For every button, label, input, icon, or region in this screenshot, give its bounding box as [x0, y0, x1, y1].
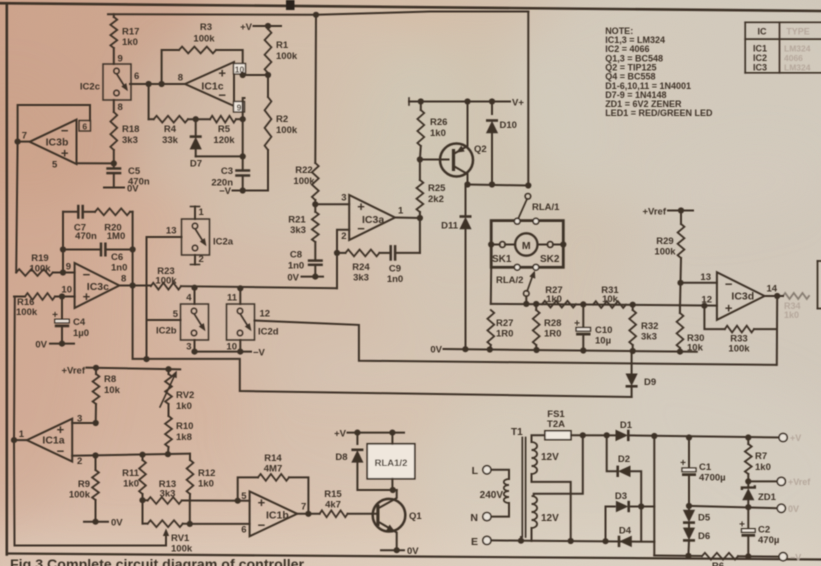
wire feedback drop — [419, 218, 421, 253]
svg-text:11: 11 — [227, 293, 238, 304]
resistor R28 — [533, 304, 562, 351]
svg-text:ZD1: ZD1 — [758, 492, 777, 503]
svg-text:IC2c: IC2c — [80, 82, 100, 93]
svg-text:−: − — [83, 267, 91, 282]
svg-text:1R0: 1R0 — [544, 329, 561, 340]
svg-text:10k: 10k — [602, 294, 619, 305]
svg-text:IC: IC — [758, 27, 768, 37]
preset RV2 — [160, 369, 194, 412]
svg-text:12V: 12V — [541, 513, 559, 524]
resistor R3 — [179, 22, 216, 53]
resistor R8 — [93, 368, 121, 423]
wire D7 anode to C3 column — [196, 153, 246, 159]
svg-text:D7: D7 — [190, 159, 202, 170]
wire IC2c pin 8 — [114, 100, 123, 113]
svg-text:D6: D6 — [698, 531, 710, 542]
svg-text:LM324: LM324 — [784, 62, 811, 72]
svg-text:IC1a: IC1a — [42, 435, 64, 447]
node pin9 feedback — [60, 262, 71, 276]
svg-text:100k: 100k — [728, 344, 750, 355]
resistor R21 — [288, 204, 318, 242]
svg-text:1k0: 1k0 — [123, 479, 139, 490]
svg-text:R28: R28 — [544, 318, 561, 329]
wire R3 right leg — [216, 50, 243, 75]
node IC3c out — [130, 282, 136, 288]
contact circle top-left — [514, 218, 520, 224]
pin 2 stub IC2a — [191, 254, 204, 265]
svg-text:3k3: 3k3 — [122, 135, 138, 146]
svg-text:C8: C8 — [290, 250, 302, 261]
potentiometer RV1 — [143, 520, 193, 554]
node R30-0V — [677, 349, 683, 355]
svg-text:R3: R3 — [200, 22, 212, 33]
resistor R24 — [337, 250, 379, 284]
svg-text:+Vref: +Vref — [642, 207, 666, 218]
wire collector row — [464, 181, 528, 187]
svg-text:100k: 100k — [69, 490, 91, 501]
note text block — [605, 26, 713, 118]
svg-text:R26: R26 — [430, 117, 447, 128]
socket SK2 — [538, 241, 567, 265]
svg-text:100k: 100k — [29, 264, 51, 275]
svg-text:0V: 0V — [287, 273, 299, 284]
svg-text:3k3: 3k3 — [353, 273, 369, 284]
terminal +Vref out — [777, 477, 811, 487]
svg-text:12V: 12V — [541, 452, 559, 463]
wire control drop from IC3c out — [133, 286, 632, 398]
resistor R11 — [122, 455, 146, 501]
svg-text:3k3: 3k3 — [290, 225, 306, 236]
pin 12 label — [701, 295, 712, 306]
svg-text:R9: R9 — [78, 479, 90, 490]
ground 0V (C5) — [127, 184, 139, 195]
wire IC2d pin 10 stub — [226, 340, 240, 353]
svg-text:C9: C9 — [389, 264, 401, 275]
svg-text:100k: 100k — [276, 51, 298, 62]
svg-text:R11: R11 — [122, 468, 140, 479]
node pin5 junction — [111, 160, 117, 166]
svg-text:9: 9 — [237, 103, 242, 113]
svg-text:4M7: 4M7 — [264, 464, 282, 475]
svg-text:IC2a: IC2a — [213, 237, 234, 248]
fuse FS1 — [545, 409, 571, 440]
svg-text:−V: −V — [790, 553, 801, 563]
wire D2 cathode leg — [607, 435, 618, 471]
resistor R23 — [151, 266, 181, 290]
svg-text:Q1: Q1 — [409, 511, 422, 522]
capacitor C8 — [288, 242, 323, 272]
node D10 top — [489, 98, 495, 104]
resistor R29 — [654, 211, 684, 283]
wire 0V mid rail — [689, 506, 781, 508]
svg-text:D8: D8 — [335, 452, 347, 463]
svg-text:T2A: T2A — [547, 419, 565, 430]
svg-text:33k: 33k — [162, 135, 179, 146]
resistor R6 — [702, 553, 738, 566]
transformer core — [511, 427, 526, 537]
resistor R4 — [149, 116, 188, 146]
svg-text:1n0: 1n0 — [111, 263, 127, 274]
node C2 bottom — [745, 553, 751, 559]
svg-text:−V: −V — [253, 347, 266, 358]
wire node to R4 row — [148, 84, 150, 119]
pin 6 notch IC3b — [79, 121, 91, 132]
node pin3 IC3a — [312, 200, 318, 207]
svg-text:R1: R1 — [276, 40, 289, 51]
svg-text:120k: 120k — [213, 135, 235, 146]
wire R29-R30 column — [679, 283, 682, 313]
wire +Vref out row — [748, 480, 781, 482]
svg-text:C3: C3 — [221, 166, 233, 177]
svg-text:R4: R4 — [164, 124, 177, 135]
ground 0V rail — [430, 345, 696, 356]
svg-text:C6: C6 — [111, 252, 123, 263]
node C6 right — [130, 246, 136, 252]
wire upper sec bottom — [532, 474, 571, 541]
wire top rail — [108, 12, 528, 15]
svg-text:E: E — [471, 536, 478, 548]
diode D2 — [618, 454, 631, 477]
svg-text:C10: C10 — [595, 325, 612, 336]
node IC3b output — [15, 139, 21, 145]
diode D8 — [335, 433, 396, 490]
svg-text:+: + — [218, 66, 226, 81]
svg-text:R32: R32 — [641, 321, 658, 332]
wire pin 2 leg — [337, 230, 349, 289]
capacitor C6 — [63, 243, 133, 274]
svg-text:1n0: 1n0 — [387, 274, 403, 285]
wire sense row — [491, 304, 680, 305]
terminal L — [472, 465, 509, 479]
svg-text:R5: R5 — [218, 124, 231, 135]
diode D5 — [683, 506, 711, 524]
svg-text:IC1: IC1 — [753, 44, 767, 54]
node C10-0V — [580, 347, 586, 353]
node pin13 — [677, 280, 683, 286]
wire base — [420, 159, 449, 161]
svg-text:1k0: 1k0 — [546, 294, 562, 305]
resistor R27 (1R0) — [487, 310, 513, 351]
wire R5 right column — [240, 116, 246, 170]
resistor R15 — [320, 489, 376, 517]
ground 0V (R9) — [84, 518, 123, 529]
contact circle bottom-right — [533, 264, 539, 270]
svg-text:4700µ: 4700µ — [699, 473, 726, 484]
svg-text:C4: C4 — [73, 317, 86, 328]
svg-text:4k7: 4k7 — [325, 500, 341, 511]
wire rail IC3b to R19 — [16, 142, 17, 273]
wire R25 to base node — [419, 160, 421, 181]
svg-text:10µ: 10µ — [595, 336, 611, 347]
wire pin 13 row — [681, 272, 717, 283]
wire D3 cathode leg — [629, 506, 655, 508]
svg-text:2: 2 — [77, 456, 82, 467]
wire IC3b pin 5 to node — [52, 160, 114, 171]
svg-text:LED1 = RED/GREEN LED: LED1 = RED/GREEN LED — [605, 108, 713, 118]
svg-text:3: 3 — [77, 414, 82, 425]
wire feedback left leg — [62, 212, 64, 273]
svg-text:M: M — [522, 240, 531, 252]
capacitor C7 — [63, 205, 97, 242]
node fuse out — [580, 432, 586, 438]
node R24 tie — [334, 250, 340, 256]
wire D2 anode leg — [631, 471, 641, 541]
node R32-0V — [630, 348, 636, 354]
svg-text:IC3a: IC3a — [362, 214, 384, 226]
svg-text:R22: R22 — [295, 165, 312, 176]
op-amp IC3c — [75, 263, 120, 308]
terminal E — [471, 536, 532, 548]
node output-R3 tap — [159, 81, 165, 87]
node R4-R5-D7 — [193, 116, 199, 122]
node C10 top — [580, 301, 586, 307]
svg-text:IC3b: IC3b — [46, 136, 69, 148]
capacitor C9 — [379, 245, 420, 285]
svg-text:R27: R27 — [496, 318, 513, 329]
wire feedback drop IC3d — [776, 296, 778, 365]
svg-text:T1: T1 — [511, 427, 523, 438]
svg-text:R24: R24 — [352, 262, 370, 273]
wire IC1c output to IC2c pin 6 — [130, 71, 185, 84]
wire pin 9 leg — [243, 98, 245, 119]
svg-text:1n0: 1n0 — [288, 261, 304, 272]
resistor R1 — [265, 26, 298, 75]
node R7 bottom — [745, 478, 751, 484]
wire motor box left leg — [490, 267, 492, 304]
resistor R30 — [677, 305, 705, 353]
diode D11 — [441, 185, 471, 351]
analog switch IC2a — [182, 219, 234, 255]
wire R18 to C5 — [113, 150, 115, 168]
svg-text:6: 6 — [82, 121, 87, 131]
wire pin 5 IC2b — [147, 309, 181, 320]
svg-text:3: 3 — [341, 193, 346, 204]
svg-text:R7: R7 — [755, 451, 767, 462]
svg-text:D3: D3 — [615, 491, 627, 502]
capacitor C4 (electrolytic) — [52, 297, 89, 344]
node RV2 top — [165, 366, 171, 372]
box at right edge — [818, 261, 821, 309]
wire pin 2 row — [72, 454, 190, 467]
node RLA/2 tie — [523, 301, 529, 307]
wire upper sec top — [532, 435, 545, 442]
transformer T1 secondary upper — [532, 442, 560, 474]
svg-text:0V: 0V — [127, 184, 139, 195]
wire +V drop column — [651, 433, 657, 556]
svg-text:D1: D1 — [620, 420, 633, 431]
svg-text:240V: 240V — [480, 490, 504, 501]
resistor R10 — [165, 404, 193, 454]
svg-text:3k3: 3k3 — [160, 489, 176, 500]
node R1-pin10 — [265, 72, 271, 78]
node IC1a out rail — [11, 437, 17, 443]
svg-text:−: − — [258, 518, 266, 533]
wire pin 10 row — [246, 74, 269, 76]
svg-text:100k: 100k — [193, 34, 215, 45]
svg-text:1k0: 1k0 — [176, 401, 192, 412]
node R8 top — [93, 365, 99, 371]
svg-text:0V: 0V — [111, 518, 123, 529]
pin 1 stub IC2a — [191, 207, 205, 220]
relay contact RLA/1 — [519, 194, 560, 218]
svg-text:1k8: 1k8 — [176, 432, 192, 443]
svg-text:C2: C2 — [758, 525, 770, 536]
op-amp IC1c — [185, 62, 234, 106]
terminal N — [470, 512, 491, 524]
svg-text:0V: 0V — [35, 340, 47, 351]
node R9 top — [92, 452, 98, 458]
pin 10 notch IC1c — [234, 64, 246, 75]
wire control bus vertical — [146, 237, 148, 359]
op-amp IC1b — [250, 491, 298, 536]
ground 0V (C8) — [287, 265, 323, 284]
svg-text:9: 9 — [118, 54, 123, 65]
svg-text:IC2d: IC2d — [258, 327, 279, 338]
capacitor C2 (electrolytic) — [739, 507, 779, 556]
svg-text:IC1c: IC1c — [201, 81, 223, 93]
svg-text:13: 13 — [166, 226, 177, 237]
resistor R27 (1k0) — [542, 285, 576, 308]
node C6 left — [60, 246, 66, 252]
svg-text:5: 5 — [52, 160, 58, 171]
wire IC2d pin 11 stub — [227, 288, 240, 304]
power -V tie (switch bank) — [191, 347, 265, 358]
svg-text:9: 9 — [66, 262, 71, 273]
svg-text:100k: 100k — [16, 307, 38, 318]
svg-text:7: 7 — [301, 502, 306, 513]
svg-text:1µ0: 1µ0 — [73, 328, 89, 339]
terminal 0V out — [777, 504, 799, 514]
svg-text:14: 14 — [767, 284, 778, 295]
svg-text:RLA/1: RLA/1 — [532, 202, 560, 213]
svg-text:1k0: 1k0 — [122, 37, 138, 48]
svg-text:LM324: LM324 — [784, 44, 811, 54]
op-amp IC1a — [27, 419, 72, 462]
wire C3 to -V — [240, 176, 246, 194]
resistor R18 — [110, 112, 139, 150]
svg-text:1k0: 1k0 — [784, 310, 799, 320]
svg-text:8: 8 — [121, 274, 126, 285]
svg-text:−: − — [725, 277, 733, 292]
svg-text:D10: D10 — [500, 120, 517, 131]
svg-text:D4: D4 — [619, 526, 632, 537]
resistor R16 label — [16, 297, 38, 318]
power V+ rail — [409, 98, 524, 109]
svg-text:R8: R8 — [104, 374, 116, 385]
svg-text:D9: D9 — [644, 377, 656, 388]
wire IC2d pin 12 control — [255, 309, 776, 365]
svg-text:D5: D5 — [698, 513, 711, 524]
wire pin 3 row — [72, 414, 99, 427]
svg-text:R14: R14 — [264, 453, 282, 464]
svg-text:0V: 0V — [407, 546, 419, 557]
node C4 top — [59, 293, 65, 299]
svg-text:V+: V+ — [512, 98, 524, 109]
svg-text:+: + — [258, 495, 266, 510]
transformer T1 primary — [480, 479, 509, 503]
svg-text:6: 6 — [134, 71, 139, 82]
resistor R12 — [187, 454, 216, 501]
wire R22 column — [314, 15, 317, 163]
node R32 top — [630, 302, 636, 308]
svg-text:470µ: 470µ — [758, 535, 779, 546]
svg-text:1R0: 1R0 — [496, 329, 513, 340]
wire IC1b output pin 7 — [297, 502, 319, 514]
op-amp IC3a — [349, 195, 395, 240]
node R26 top — [418, 98, 424, 104]
svg-text:+Vref: +Vref — [61, 366, 85, 377]
svg-text:−V: −V — [219, 186, 232, 197]
wire R3 left leg — [162, 50, 179, 84]
node R23-IC2d — [237, 285, 243, 291]
svg-text:+: + — [357, 199, 365, 214]
svg-text:R18: R18 — [122, 124, 139, 135]
svg-text:3k3: 3k3 — [641, 332, 657, 343]
svg-text:3: 3 — [186, 342, 191, 353]
terminal -V out — [779, 553, 801, 563]
svg-text:R12: R12 — [198, 468, 215, 479]
svg-text:100k: 100k — [654, 247, 676, 258]
motor M — [515, 233, 537, 255]
node R13 left — [139, 497, 145, 503]
wire IC3b feedback loop — [18, 105, 90, 142]
node R14 tap — [235, 498, 241, 504]
svg-text:2k2: 2k2 — [428, 194, 444, 205]
svg-text:+V: +V — [334, 429, 347, 440]
zener ZD1 — [742, 481, 777, 507]
node D2-D3 — [638, 503, 644, 509]
svg-text:RLA/2: RLA/2 — [496, 275, 523, 286]
svg-text:5: 5 — [173, 309, 179, 320]
svg-text:5: 5 — [241, 491, 247, 502]
svg-text:1k0: 1k0 — [755, 462, 771, 473]
node control tie — [143, 356, 149, 362]
resistor R5 — [188, 116, 243, 146]
resistor R19 — [16, 253, 74, 276]
ground 0V (Q1) — [381, 546, 419, 557]
node D11-0V — [462, 346, 468, 352]
node R28-0V — [533, 347, 539, 353]
diode D1 — [616, 420, 633, 441]
svg-text:+V: +V — [240, 22, 253, 33]
svg-text:RV1: RV1 — [171, 533, 190, 544]
svg-text:1: 1 — [19, 429, 25, 440]
node output-R4 tap — [146, 81, 152, 87]
power +Vref stub (right) — [642, 207, 693, 218]
wire R2 to -V — [267, 150, 269, 191]
svg-text:470n: 470n — [75, 231, 97, 242]
svg-text:R2: R2 — [276, 114, 288, 125]
wire pin 13 IC2a — [147, 226, 182, 238]
svg-text:D2: D2 — [618, 454, 630, 465]
svg-text:1: 1 — [199, 207, 205, 218]
capacitor C3 — [211, 166, 250, 189]
node R14 bottom — [305, 511, 311, 517]
node IC3d out — [774, 293, 780, 299]
resistor R26 — [417, 102, 447, 160]
power +Vref stub (left) — [61, 366, 180, 377]
capacitor C10 (electrolytic) — [574, 304, 612, 351]
svg-text:R29: R29 — [656, 236, 673, 247]
power +V stub — [240, 22, 281, 33]
node top-R22 junction — [313, 12, 319, 18]
diode D6 — [683, 523, 710, 556]
diode D7 — [190, 119, 202, 169]
wire R17 to IC2c pin 9 — [114, 48, 123, 65]
node pin12 tie — [701, 303, 707, 309]
svg-text:+: + — [725, 301, 733, 316]
wire core earth tap — [518, 537, 524, 544]
